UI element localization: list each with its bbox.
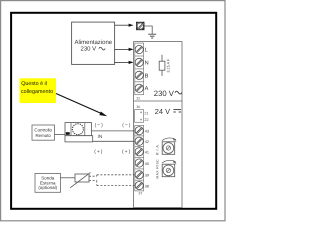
potentiometer P2 arrow — [162, 160, 175, 163]
terminal 42 — [135, 137, 149, 145]
terminal column 24V cells — [135, 125, 144, 190]
fuse F1 — [159, 55, 170, 76]
svg-text:41: 41 — [145, 151, 149, 155]
terminal A — [135, 84, 149, 92]
svg-text:40: 40 — [145, 162, 149, 166]
svg-text:43: 43 — [145, 130, 149, 134]
dashed wire to terminal 39 — [97, 174, 135, 176]
potentiometer P1 (R I.A.) — [156, 142, 175, 155]
terminal L — [135, 45, 148, 53]
svg-text:36: 36 — [136, 105, 140, 109]
terminal board box — [134, 42, 182, 208]
remote control box — [32, 125, 55, 140]
ground — [148, 34, 156, 38]
svg-text:R I.A.: R I.A. — [156, 143, 160, 155]
power supply box U1 Alimentazione — [72, 22, 115, 64]
terminal 38 — [135, 182, 149, 190]
svg-text:MAX RISC: MAX RISC — [156, 159, 160, 179]
svg-text:Alimentazione: Alimentazione — [74, 39, 112, 46]
divider 230V/24V — [134, 100, 182, 102]
svg-text:24 V: 24 V — [155, 107, 170, 116]
svg-text:(−): (−) — [122, 123, 131, 129]
svg-text:230 V: 230 V — [154, 89, 175, 98]
svg-text:A: A — [145, 86, 149, 92]
terminal 40 — [135, 159, 149, 167]
potentiometer P1 arrow — [162, 138, 175, 141]
svg-text:39: 39 — [145, 174, 149, 178]
dashed wire down — [96, 181, 98, 186]
svg-text:22: 22 — [144, 118, 148, 122]
dashed wire sensor to node — [89, 175, 97, 177]
terminal N — [135, 58, 149, 66]
svg-text:B: B — [145, 73, 149, 79]
svg-text:(−): (−) — [95, 123, 104, 129]
connector 21/22 — [135, 110, 149, 123]
svg-text:21: 21 — [144, 111, 148, 115]
external sensor box Sonda Esterna — [35, 174, 61, 193]
wire sensor box to sensor — [61, 177, 76, 179]
earth terminal PE — [136, 22, 144, 30]
svg-text:collegamento: collegamento — [21, 89, 53, 95]
wire L1 to earth terminal — [115, 24, 134, 27]
svg-text:N: N — [145, 60, 149, 66]
terminal B — [135, 71, 149, 79]
svg-text:230 V: 230 V — [81, 46, 97, 53]
label 24V DC — [155, 107, 181, 116]
wire device to terminal 43 — [92, 130, 136, 132]
terminal column 230V cells — [135, 43, 144, 95]
wire device to terminal 42 — [93, 140, 135, 142]
callout arrow — [56, 94, 107, 117]
svg-text:Questo è il: Questo è il — [21, 81, 47, 87]
svg-text:Remoto: Remoto — [36, 133, 52, 138]
svg-text:32: 32 — [136, 97, 140, 101]
potentiometer P2 (MAX RISC) — [156, 159, 175, 179]
terminal 43 — [135, 127, 149, 135]
wire PE to ground — [144, 26, 152, 34]
terminal 39 — [135, 171, 149, 179]
svg-text:3.15 A F: 3.15 A F — [167, 58, 171, 73]
svg-text:Controllo: Controllo — [34, 128, 52, 133]
svg-text:IN: IN — [98, 134, 103, 140]
label 230V — [154, 89, 182, 98]
dashed wire to terminal 38 — [97, 185, 135, 187]
svg-text:38: 38 — [145, 184, 149, 188]
svg-text:(optional): (optional) — [38, 185, 57, 190]
wire remote box to device — [55, 134, 66, 136]
wire L to terminal L — [115, 48, 134, 51]
sensor NTC — [70, 172, 90, 187]
remote thermostat device — [65, 123, 93, 142]
terminal 41 — [135, 148, 149, 156]
svg-text:(+): (+) — [122, 149, 131, 155]
svg-text:37: 37 — [138, 192, 142, 196]
svg-text:(+): (+) — [94, 149, 103, 155]
callout Questo è il collegamento — [20, 78, 57, 103]
svg-text:L: L — [145, 48, 148, 54]
wire N to terminal N — [115, 61, 134, 64]
svg-text:42: 42 — [145, 140, 149, 144]
